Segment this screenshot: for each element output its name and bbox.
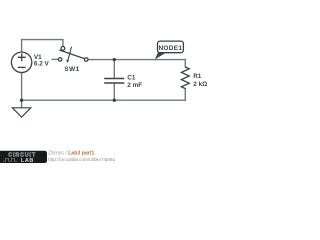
wire SW1 common to R1 rail — [88, 59, 185, 61]
svg-text:SW1: SW1 — [64, 66, 79, 73]
wire V1 bottom lead — [21, 73, 23, 100]
watermark CircuitLab logo — [0, 151, 47, 164]
wire C1 top lead — [113, 60, 115, 78]
svg-text:http://circuitlab.com/c5bkv74j: http://circuitlab.com/c5bkv74j86q — [48, 157, 115, 162]
wire R1 bottom lead — [184, 89, 186, 101]
wire top rail — [22, 39, 63, 41]
resistor R1 — [181, 67, 189, 89]
wire rail to SW1 top throw — [62, 40, 64, 47]
wire rail corner to R1 top — [184, 60, 186, 67]
wire ground stem — [21, 100, 23, 107]
svg-text:LAB: LAB — [21, 158, 34, 164]
svg-text:Zhmys / Lab3 part1: Zhmys / Lab3 part1 — [48, 151, 94, 157]
svg-text:6.2 V: 6.2 V — [34, 60, 50, 67]
wire V1 top lead — [21, 40, 23, 52]
junction dot at C1 bottom — [113, 99, 116, 102]
junction dot at C1 top — [113, 58, 116, 61]
capacitor C1 — [104, 79, 124, 84]
junction dot at ground — [20, 99, 23, 102]
wire SW1 unused throw stub — [52, 58, 58, 60]
svg-text:NODE1: NODE1 — [158, 45, 182, 52]
wire C1 bottom lead — [113, 83, 115, 100]
wire bottom rail — [22, 99, 186, 101]
voltage source V1 — [11, 52, 31, 72]
switch SW1 — [58, 47, 88, 64]
svg-text:2 kΩ: 2 kΩ — [193, 81, 207, 88]
node flag NODE1 — [155, 41, 184, 59]
svg-text:2 mF: 2 mF — [127, 82, 142, 89]
svg-text:C1: C1 — [127, 74, 136, 81]
ground — [12, 108, 30, 117]
svg-text:R1: R1 — [193, 73, 202, 80]
